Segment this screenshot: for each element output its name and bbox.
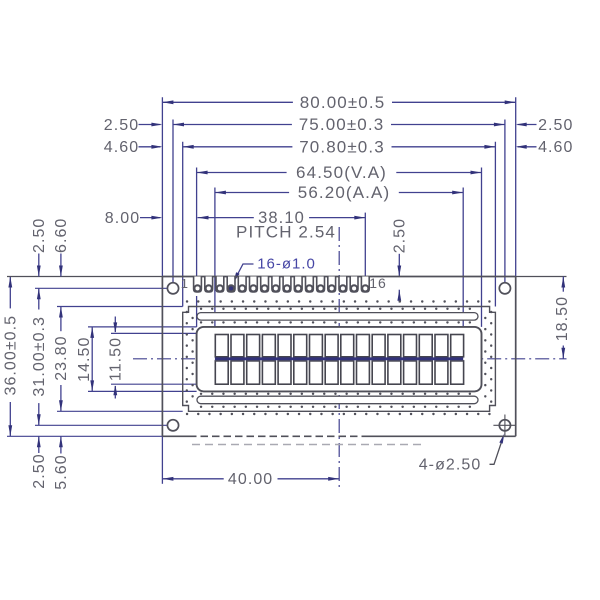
horizontal dimension 70.80 line: [183, 146, 496, 148]
horizontal dimension 64.50 (V.A) line: [197, 172, 482, 174]
svg-text:2.50: 2.50: [392, 218, 409, 253]
vertical dimension 14.50 line: [91, 327, 93, 392]
svg-text:16: 16: [369, 275, 386, 291]
svg-text:2.50: 2.50: [104, 117, 139, 134]
2.50 left offset label: [139, 124, 161, 126]
horizontal centerline right segment: [463, 358, 566, 360]
mounting hole bottom-right with crosshair: [499, 420, 510, 431]
16 pin pads: [194, 277, 202, 293]
svg-text:36.00±0.5: 36.00±0.5: [3, 315, 20, 396]
horizontal dimension 75.00 line: [173, 124, 505, 126]
pcb top edge extension to right: [516, 276, 567, 278]
mounting hole bottom-left: [167, 420, 178, 431]
svg-text:8.00: 8.00: [105, 210, 140, 227]
svg-text:75.00±0.3: 75.00±0.3: [299, 115, 385, 134]
svg-text:23.80: 23.80: [53, 335, 70, 380]
svg-text:5.60: 5.60: [53, 454, 70, 489]
svg-text:2.50: 2.50: [31, 218, 48, 253]
svg-text:4.60: 4.60: [538, 139, 573, 156]
svg-text:18.50: 18.50: [554, 296, 571, 341]
extension lines for 80.00: [161, 97, 163, 276]
svg-text:1: 1: [181, 276, 189, 291]
bezel top slot: [197, 313, 478, 321]
vertical dimension 6.60 top-left: [60, 254, 62, 277]
svg-text:40.00: 40.00: [228, 471, 273, 488]
vertical dimension 2.50 top-left: [38, 254, 40, 277]
hole center extension lines left: [35, 287, 167, 289]
character cells 16x2: [215, 335, 228, 357]
bezel stipple dots: [187, 300, 492, 302]
vertical dimension 36.00 line: [9, 277, 11, 437]
svg-text:2.50: 2.50: [538, 117, 573, 134]
svg-text:4-ø2.50: 4-ø2.50: [419, 456, 482, 473]
PCB bottom edge (partly dashed): [162, 435, 189, 437]
vertical dimension 2.50 bottom-left: [38, 436, 40, 453]
svg-text:80.00±0.5: 80.00±0.5: [300, 93, 386, 112]
vertical dimension 11.50 line: [114, 317, 116, 334]
vertical dimension 18.50 line: [562, 277, 564, 359]
horizontal dimension 56.20 (A.A) line: [215, 192, 463, 194]
AA top/bottom extension lines left: [111, 332, 215, 334]
svg-text:70.80±0.3: 70.80±0.3: [299, 137, 385, 156]
svg-text:31.00±0.3: 31.00±0.3: [31, 316, 48, 397]
bezel bottom slot: [197, 396, 478, 404]
mounting hole top-left: [167, 283, 178, 294]
svg-text:56.20(A.A): 56.20(A.A): [298, 183, 390, 202]
vertical dimension 2.50 at pin row: [398, 254, 400, 277]
vertical dimension 23.80 line: [60, 307, 62, 412]
svg-text:PITCH 2.54: PITCH 2.54: [236, 222, 336, 241]
svg-text:14.50: 14.50: [76, 337, 93, 382]
4.60 left offset label: [139, 146, 161, 148]
svg-text:11.50: 11.50: [108, 337, 125, 381]
2.50 right offset label: [518, 124, 537, 126]
bezel top/bottom extension lines left: [57, 306, 183, 308]
vertical dimension 5.60 bottom-left: [60, 436, 62, 453]
pcb top edge extension to left: [7, 276, 162, 278]
PCB outline: [162, 276, 515, 278]
4.60 right offset label: [518, 146, 537, 148]
horizontal dimension 80.00 line: [162, 101, 515, 103]
svg-text:2.50: 2.50: [31, 453, 48, 488]
vertical centerline: [338, 227, 340, 487]
horizontal dimension 38.10 line: [198, 217, 366, 219]
dimension 40.00 line: [162, 478, 339, 480]
horizontal centerline left segment: [133, 358, 215, 360]
pcb bottom edge extension to left: [7, 435, 162, 437]
svg-text:4.60: 4.60: [104, 139, 139, 156]
svg-text:16-ø1.0: 16-ø1.0: [257, 255, 316, 272]
faint dashed line under PCB: [192, 444, 424, 446]
thick center band across display: [215, 357, 463, 360]
window top/bottom extension lines left: [88, 326, 197, 328]
8.00 dimension label: [140, 217, 161, 219]
vertical dimension 31.00 line: [38, 288, 40, 425]
svg-text:6.60: 6.60: [53, 218, 70, 253]
svg-text:64.50(V.A): 64.50(V.A): [296, 163, 387, 182]
display window (V.A): [197, 327, 482, 392]
bezel outline with notched corners: [183, 307, 496, 412]
mounting hole top-right: [499, 283, 510, 294]
